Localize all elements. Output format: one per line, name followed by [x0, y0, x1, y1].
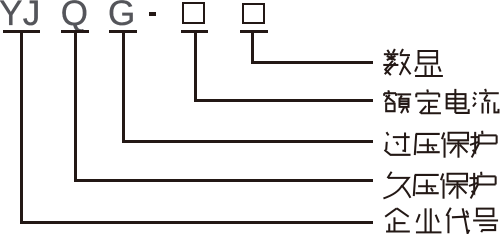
underline under square2 — [240, 30, 268, 33]
model code letter G — [108, 0, 135, 31]
wire vertical from YJ — [20, 33, 23, 224]
wire horizontal from YJ to label — [20, 221, 373, 224]
label 欠压保护 — [382, 170, 497, 199]
wire horizontal from G to label — [122, 140, 373, 143]
wire horizontal from square2 to label — [251, 61, 373, 64]
wire horizontal from Q to label — [74, 179, 373, 182]
wire vertical from square2 — [251, 33, 254, 64]
wire vertical from Q — [74, 33, 77, 182]
underline under YJ — [3, 30, 39, 33]
model code hyphen — [149, 12, 157, 15]
wire vertical from square1 — [194, 33, 197, 102]
model code letter J — [23, 0, 41, 31]
model code letter Y — [0, 0, 22, 31]
label 过压保护 — [383, 129, 498, 158]
digit placeholder box 1 — [182, 2, 206, 24]
underline under Q — [61, 30, 89, 33]
model code letter Q — [61, 0, 88, 31]
label 数显 — [383, 49, 443, 78]
wire vertical from G — [122, 33, 125, 143]
digit placeholder box 2 — [242, 3, 266, 24]
wire horizontal from square1 to label — [194, 99, 374, 102]
underline under square1 — [181, 30, 208, 33]
label 额定电流 — [383, 88, 500, 117]
label 企业代号 — [382, 206, 500, 235]
underline under G — [109, 30, 137, 33]
